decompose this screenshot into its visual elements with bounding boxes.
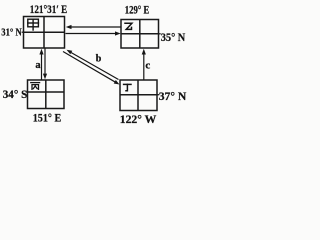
svg-text:b: b — [96, 54, 102, 65]
svg-text:37° N: 37° N — [159, 89, 187, 103]
svg-text:c: c — [145, 60, 150, 72]
svg-text:151° E: 151° E — [33, 111, 62, 125]
svg-text:122° W: 122° W — [120, 112, 157, 126]
svg-text:a: a — [35, 60, 41, 71]
svg-text:129° E: 129° E — [125, 3, 150, 17]
svg-text:31° N: 31° N — [1, 27, 22, 39]
svg-text:34° S: 34° S — [3, 89, 28, 101]
svg-text:35° N: 35° N — [161, 30, 186, 44]
svg-text:121°31′ E: 121°31′ E — [30, 2, 68, 16]
